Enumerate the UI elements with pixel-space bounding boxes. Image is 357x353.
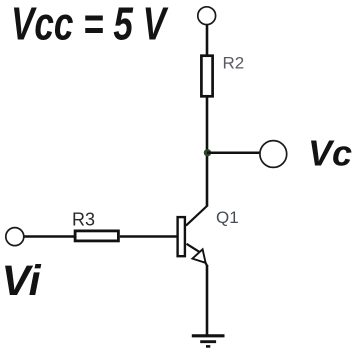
label R3 — [72, 210, 95, 230]
resistor R2 — [201, 56, 212, 97]
wire: node to Vc terminal — [207, 151, 260, 154]
wire: R3 to Q1 base — [120, 235, 177, 237]
resistor R3 — [75, 231, 118, 241]
svg-text:R3: R3 — [72, 210, 95, 230]
svg-text:Vi: Vi — [2, 257, 42, 305]
svg-text:Vc: Vc — [308, 133, 352, 174]
transistor Q1 base bar — [178, 217, 185, 256]
label Vcc = 5 V — [11, 0, 169, 50]
terminal Vc (output circle) — [260, 141, 287, 168]
terminal Vi (input circle) — [6, 228, 24, 246]
label R2 — [223, 54, 245, 73]
wire: emitter diagonal from Q1 — [187, 244, 201, 253]
wire: emitter to ground — [205, 261, 208, 335]
node (collector junction dot) — [204, 149, 211, 156]
label Vc — [308, 133, 352, 174]
terminal Vcc (top circle) — [198, 7, 216, 25]
wire: collector diagonal to Q1 base bar — [186, 206, 208, 226]
emitter arrowhead — [192, 249, 205, 262]
svg-text:Vcc = 5 V: Vcc = 5 V — [11, 0, 169, 50]
svg-text:R2: R2 — [223, 54, 245, 73]
wire: base wire from Vi terminal to R3 — [24, 235, 75, 237]
wire: Vcc terminal to R2 — [206, 24, 209, 56]
svg-text:Q1: Q1 — [216, 208, 239, 227]
ground symbol — [192, 336, 225, 347]
label Vi — [2, 257, 42, 305]
wire: R2 to collector node — [206, 96, 209, 207]
label Q1 — [216, 208, 239, 227]
